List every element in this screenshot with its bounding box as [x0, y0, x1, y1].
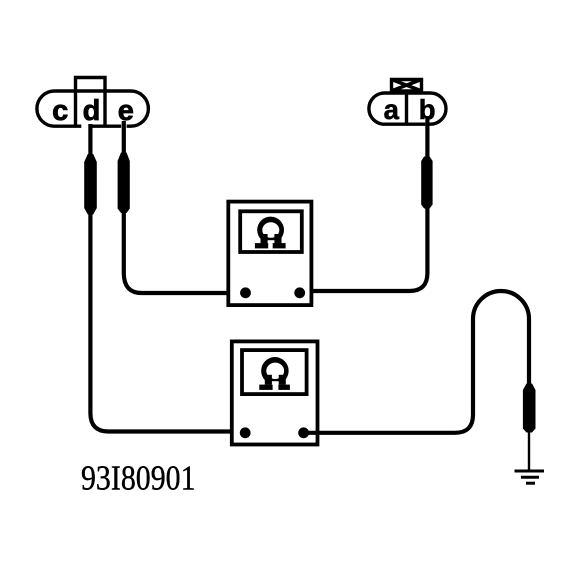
connector J2 pin divider: [405, 93, 408, 125]
svg-text:93I80901: 93I80901: [81, 459, 196, 498]
M2 right terminal: [298, 427, 309, 438]
ohmmeter M2 case: [232, 341, 318, 444]
svg-text:d: d: [83, 95, 101, 127]
ground symbol bar 2: [521, 476, 539, 479]
ground symbol bar 1: [515, 470, 545, 473]
connector J2 keying tab (crossed box): [392, 80, 422, 91]
test lead wire from pin b to ohmmeter M1 right terminal: [300, 116, 428, 291]
connector J2 body: [369, 93, 446, 124]
M1 right terminal: [294, 287, 305, 298]
lead wire from M2 right terminal looping to ground probe: [304, 291, 529, 433]
ground symbol bar 3: [526, 482, 535, 485]
test lead wire from pin d to ohmmeter M2 left terminal: [90, 124, 245, 432]
connector J1 keying tab: [76, 78, 106, 128]
ohmmeter M1 display: [240, 211, 302, 252]
ohmmeter M2 display: [242, 350, 307, 394]
ohmmeter M1 ohm symbol: [255, 217, 286, 249]
M2 left terminal: [240, 427, 251, 438]
probe body on lead b: [421, 157, 432, 209]
ground lead tip wire: [528, 430, 530, 471]
probe body on ground lead: [523, 384, 536, 433]
probe body on lead d: [84, 154, 97, 215]
test lead wire from pin e to ohmmeter M1 left terminal: [124, 121, 246, 293]
svg-text:a: a: [384, 94, 400, 125]
ohmmeter M2 ohm symbol: [259, 357, 290, 390]
svg-text:c: c: [52, 95, 68, 127]
ohmmeter M1 case: [228, 202, 311, 306]
M1 left terminal: [240, 287, 251, 298]
connector J1 body: [37, 91, 148, 126]
probe body on lead e: [118, 153, 130, 214]
